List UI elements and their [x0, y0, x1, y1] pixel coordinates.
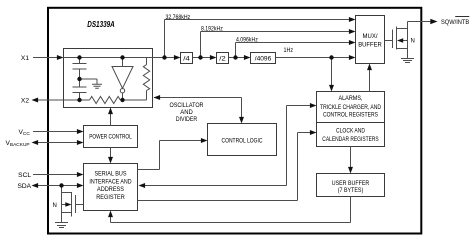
svg-text:SDA: SDA: [17, 183, 31, 190]
svg-text:(7 BYTES): (7 BYTES): [338, 187, 364, 194]
svg-text:USER BUFFER: USER BUFFER: [332, 180, 370, 187]
svg-text:TRICKLE CHARGER, AND: TRICKLE CHARGER, AND: [320, 104, 381, 111]
svg-text:SCL: SCL: [18, 172, 31, 179]
svg-text:4.096kHz: 4.096kHz: [236, 37, 258, 44]
svg-text:N: N: [411, 39, 415, 45]
svg-text:ALARMS,: ALARMS,: [339, 95, 363, 102]
svg-text:DS1339A: DS1339A: [87, 20, 115, 29]
svg-text:/4096: /4096: [255, 56, 272, 63]
svg-text:CALENDAR REGISTERS: CALENDAR REGISTERS: [322, 136, 379, 143]
svg-text:ADDRESS: ADDRESS: [97, 186, 124, 193]
svg-text:8.192kHz: 8.192kHz: [201, 26, 223, 33]
svg-text:X2: X2: [21, 97, 29, 104]
svg-text:VCC: VCC: [19, 129, 31, 137]
svg-text:1Hz: 1Hz: [284, 47, 294, 54]
svg-text:SQW/INTB: SQW/INTB: [441, 19, 470, 26]
svg-text:MUX/: MUX/: [363, 33, 378, 40]
svg-text:N: N: [53, 203, 57, 209]
svg-text:CONTROL LOGIC: CONTROL LOGIC: [222, 138, 263, 145]
svg-text:POWER CONTROL: POWER CONTROL: [89, 134, 132, 141]
svg-text:REGISTER: REGISTER: [96, 194, 125, 201]
svg-text:BUFFER: BUFFER: [358, 41, 382, 48]
svg-text:32.768kHz: 32.768kHz: [166, 14, 191, 21]
svg-text:INTERFACE AND: INTERFACE AND: [89, 178, 131, 185]
svg-text:/4: /4: [183, 56, 190, 63]
svg-text:AND: AND: [180, 109, 193, 116]
svg-text:CONTROL REGISTERS: CONTROL REGISTERS: [323, 112, 378, 119]
svg-text:CLOCK AND: CLOCK AND: [336, 127, 365, 134]
svg-text:VBACKUP: VBACKUP: [6, 140, 30, 148]
svg-text:X1: X1: [21, 55, 29, 62]
svg-text:/2: /2: [219, 56, 226, 63]
svg-text:DIVIDER: DIVIDER: [176, 116, 198, 123]
svg-text:SERIAL BUS: SERIAL BUS: [95, 170, 127, 177]
